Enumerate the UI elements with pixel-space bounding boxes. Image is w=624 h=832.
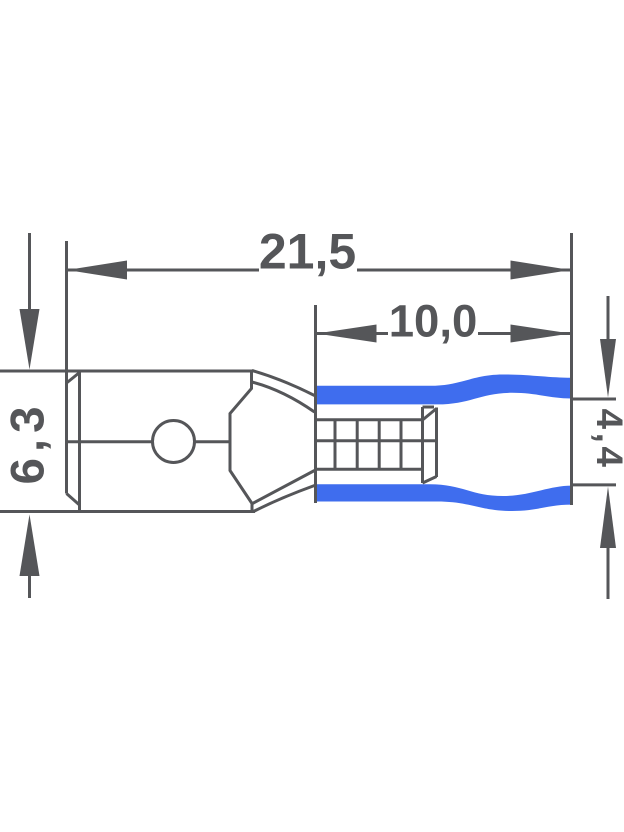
- 10,0 left arrowhead: [317, 325, 377, 343]
- grid divider 4: [400, 420, 403, 470]
- center line right of hole: [196, 440, 231, 443]
- grid divider 2: [356, 420, 359, 470]
- crimp serration grid top line: [316, 418, 423, 421]
- 21,5 right arrowhead: [511, 261, 571, 280]
- blade bevel inner line: [78, 371, 81, 512]
- crimp serration grid middle line: [316, 439, 437, 442]
- 21,5 left arrowhead: [67, 261, 127, 280]
- 6,3 bottom arrowhead: [20, 515, 40, 577]
- blade bottom edge with 6,3 extension to left margin: [0, 510, 255, 513]
- 4,4 bottom arrow shaft: [607, 548, 610, 599]
- part right edge / right extension line: [570, 233, 573, 505]
- barrel right edge: [435, 408, 438, 478]
- funnel bottom outer fold: [254, 486, 315, 512]
- 10,0 right arrowhead: [511, 325, 571, 343]
- dimension line 10,0 left segment: [317, 332, 388, 335]
- barrel end top lip: [423, 406, 435, 409]
- 6,3 top arrowhead: [20, 309, 40, 370]
- 4,4 top arrow shaft: [607, 296, 610, 340]
- insulation left edge / 10,0 left extension: [314, 305, 317, 503]
- funnel bottom inner fold: [253, 471, 315, 504]
- insulation bottom band: [316, 484, 572, 511]
- crimp serration grid bottom line: [316, 468, 423, 471]
- svg-text:21,5: 21,5: [259, 224, 356, 280]
- 6,3 top arrow shaft: [28, 233, 31, 315]
- bevel top chamfer: [67, 373, 80, 384]
- 6,3 bottom arrow shaft: [28, 576, 31, 598]
- center line left of hole: [67, 440, 152, 443]
- insulation top band: [316, 375, 572, 405]
- bevel bottom chamfer: [67, 494, 80, 506]
- dimension line 21,5 right segment: [357, 269, 570, 272]
- dimension line 21,5 left segment: [68, 269, 259, 272]
- grid right divider: [421, 407, 424, 483]
- funnel top inner fold: [252, 382, 315, 412]
- blade top edge with 6,3 extension to left margin: [0, 370, 253, 373]
- barrel end top chamfer: [423, 409, 437, 421]
- grid divider 3: [378, 420, 381, 470]
- barrel end bottom chamfer: [423, 477, 437, 484]
- grid divider 1: [334, 420, 337, 470]
- svg-text:6,3: 6,3: [2, 400, 55, 484]
- 4,4 bottom extension line: [572, 483, 617, 486]
- dimension line 10,0 right segment: [478, 332, 570, 335]
- hole in blade: [153, 421, 195, 463]
- 4,4 top extension line: [572, 398, 617, 401]
- 4,4 bottom arrowhead: [600, 487, 616, 549]
- svg-text:4,4: 4,4: [589, 409, 624, 471]
- funnel top outer fold: [252, 371, 315, 396]
- transition funnel left profile: [230, 371, 252, 513]
- blade tip face / 21,5 left extension: [65, 241, 68, 494]
- svg-text:10,0: 10,0: [389, 296, 478, 347]
- 4,4 top arrowhead: [600, 339, 616, 398]
